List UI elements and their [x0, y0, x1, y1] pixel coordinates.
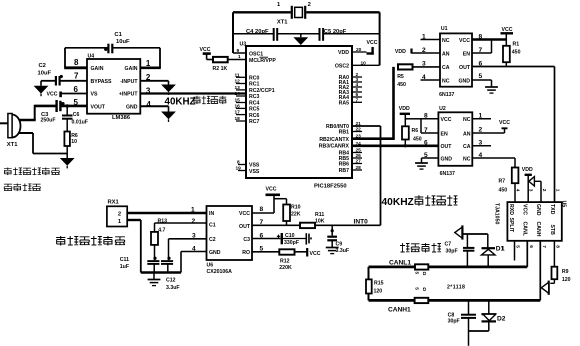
svg-text:7: 7	[541, 245, 547, 248]
svg-text:16: 16	[235, 103, 241, 109]
svg-text:24: 24	[356, 141, 362, 147]
bus line1 CANL	[369, 266, 528, 269]
svg-text:R11: R11	[315, 212, 324, 218]
wire R2 to MCLR	[228, 54, 246, 60]
svg-text:4.7: 4.7	[158, 227, 165, 233]
svg-text:21: 21	[356, 121, 362, 127]
svg-text:VDD: VDD	[338, 50, 349, 56]
svg-text:SPLIT: SPLIT	[508, 218, 514, 234]
wire R13 to C11	[154, 245, 156, 260]
svg-text:C2: C2	[39, 63, 46, 69]
svg-text:8: 8	[555, 245, 561, 248]
svg-text:GAIN: GAIN	[125, 66, 138, 72]
ground between C4 and C5	[293, 34, 308, 48]
VCC supply at CX pin8	[252, 187, 280, 214]
svg-text:5: 5	[479, 73, 483, 80]
svg-text:VCC: VCC	[266, 187, 277, 193]
svg-text:5: 5	[414, 272, 420, 275]
svg-text:TJA1050: TJA1050	[493, 203, 499, 224]
svg-text:EN: EN	[463, 51, 470, 57]
svg-text:RB3/CANRX: RB3/CANRX	[319, 144, 350, 150]
wire U2 GND pin5 to ground	[422, 158, 439, 163]
svg-text:8: 8	[260, 206, 264, 213]
svg-text:26: 26	[356, 153, 362, 159]
svg-text:CANH1: CANH1	[388, 307, 411, 314]
label 40KHZ square wave input	[165, 96, 227, 108]
svg-text:10K: 10K	[315, 219, 325, 225]
ground at pin4	[161, 112, 176, 122]
wire pin7 bypass	[41, 81, 87, 86]
resistor R9 120	[550, 267, 570, 284]
VCC supply above R1	[501, 27, 514, 46]
svg-text:450: 450	[397, 82, 406, 88]
svg-text:RC3: RC3	[249, 94, 259, 100]
svg-text:VOUT: VOUT	[91, 104, 106, 110]
svg-text:1: 1	[479, 113, 483, 120]
bus tap symbol at STB	[541, 281, 548, 295]
VDD supply above R6	[399, 106, 410, 126]
VSS pin stubs 8 and 19	[236, 160, 247, 172]
svg-text:BYPASS: BYPASS	[91, 79, 112, 85]
svg-text:450: 450	[413, 137, 422, 143]
ground below C9	[326, 248, 339, 254]
svg-text:OSC1: OSC1	[249, 51, 263, 57]
svg-text:C2: C2	[209, 237, 216, 243]
ground below rail	[148, 273, 161, 286]
svg-text:22: 22	[356, 127, 362, 133]
svg-text:IN: IN	[209, 211, 214, 217]
svg-text:VCC: VCC	[47, 91, 58, 97]
capacitor C6 0.01uF	[62, 104, 88, 131]
capacitor C12 3.3uF	[161, 257, 180, 291]
svg-text:VSS: VSS	[249, 169, 260, 175]
svg-text:R13: R13	[158, 219, 168, 225]
label ultrasonic sensor (CJK)	[4, 168, 60, 176]
svg-text:R10: R10	[291, 205, 301, 211]
svg-text:1: 1	[501, 246, 505, 253]
wire CX C1 to R13	[155, 223, 207, 232]
svg-text:C4 20pF: C4 20pF	[246, 29, 269, 35]
svg-text:RC1: RC1	[249, 82, 259, 88]
svg-text:8: 8	[74, 58, 79, 67]
svg-text:RX1: RX1	[108, 200, 120, 206]
svg-text:VCC: VCC	[239, 211, 250, 217]
svg-text:C5 20pF: C5 20pF	[324, 29, 347, 35]
svg-text:OUT: OUT	[459, 65, 471, 71]
svg-text:C12: C12	[166, 278, 176, 284]
svg-text:TXD: TXD	[549, 204, 555, 215]
svg-text:OUT: OUT	[441, 144, 453, 150]
svg-text:VCC: VCC	[200, 47, 211, 53]
capacitor C2 10uF	[38, 63, 63, 86]
wire CX OUT	[252, 224, 300, 226]
svg-text:OUT: OUT	[239, 224, 251, 230]
svg-text:30pF: 30pF	[446, 249, 458, 255]
svg-text:GND: GND	[126, 104, 138, 110]
svg-text:RC7: RC7	[249, 119, 259, 125]
svg-text:5: 5	[414, 287, 420, 290]
svg-text:GND: GND	[441, 156, 453, 162]
wire C1 top run	[65, 47, 160, 49]
svg-text:3.3uF: 3.3uF	[336, 248, 350, 254]
resistor R12 220K at pin5	[252, 249, 307, 271]
svg-text:CANL: CANL	[521, 222, 527, 237]
svg-text:6: 6	[424, 140, 428, 147]
wire +INPUT 40KHz input line to PIC RC2	[140, 92, 246, 94]
transducer XT1	[7, 114, 21, 148]
svg-text:11: 11	[235, 72, 240, 78]
resistor R10 22K pull-up	[274, 199, 301, 226]
svg-text:NC: NC	[442, 78, 450, 84]
wire TJA STB pin8 to R9	[553, 241, 555, 267]
bus line2 CANH	[369, 299, 541, 302]
svg-text:RC5: RC5	[249, 107, 259, 113]
wire RB3/CANRX to U2 OUT (thick)	[352, 141, 438, 147]
svg-text:VDD: VDD	[395, 49, 406, 55]
svg-text:25: 25	[356, 148, 362, 154]
wire pin8 feedback loop left	[64, 48, 87, 68]
wire GND pin4 to ground	[140, 106, 168, 111]
wire VOUT corner to transducer	[19, 105, 36, 120]
wire TJA SPLIT pin5 stub	[514, 241, 516, 261]
wire TJA CANH pin7 to bus line2	[539, 241, 541, 301]
label 40KHZ square wave output	[382, 195, 458, 208]
VCC supply for MCLR	[200, 47, 214, 60]
wire TJA CANL pin6 to bus line1	[526, 241, 528, 267]
svg-text:C8: C8	[448, 312, 455, 318]
svg-text:2: 2	[192, 218, 196, 225]
svg-text:EN: EN	[441, 131, 448, 137]
ground below R6	[60, 154, 75, 169]
svg-text:1uF: 1uF	[120, 264, 129, 270]
wire U1 OUT to TJA TXD	[472, 67, 555, 203]
svg-text:VCC: VCC	[367, 40, 378, 46]
label connection bus (CJK)	[400, 243, 441, 253]
svg-text:6N137: 6N137	[440, 171, 455, 177]
crystal XT1	[277, 2, 311, 25]
svg-text:VSS: VSS	[249, 163, 260, 169]
wire joining C8 and D2 bottoms	[469, 331, 489, 346]
wire crystal right vertical to OSC2	[379, 12, 381, 65]
VCC supply at VS pin6	[47, 91, 88, 97]
svg-text:GND: GND	[458, 78, 470, 84]
svg-text:R9: R9	[562, 269, 569, 275]
capacitor C11 1uF	[120, 257, 160, 273]
diode D2	[482, 300, 506, 331]
svg-text:R7: R7	[499, 179, 506, 185]
capacitor C7 30pF	[445, 234, 475, 267]
CAN transceiver U5 TJA1050 box	[493, 201, 566, 241]
wire RB0/INT0 to INT0 net	[352, 121, 381, 225]
svg-text:C6: C6	[73, 112, 80, 118]
svg-text:U1: U1	[441, 26, 448, 32]
wire -INPUT to ground	[140, 81, 168, 85]
svg-text:RB7: RB7	[339, 168, 349, 174]
svg-text:17: 17	[235, 110, 241, 116]
svg-text:RC6: RC6	[249, 113, 259, 119]
svg-text:120: 120	[374, 289, 383, 295]
svg-text:RC2/CCP1: RC2/CCP1	[249, 88, 275, 94]
svg-text:OSC2: OSC2	[335, 64, 349, 70]
U2 right pin stubs 1-4	[472, 113, 491, 160]
svg-text:10uF: 10uF	[116, 39, 130, 45]
svg-text:PIC18F2550: PIC18F2550	[314, 184, 347, 190]
VDD tick at U1 AN pin2	[395, 49, 440, 56]
op-amp U4 LM386 box	[87, 54, 140, 122]
svg-text:23: 23	[356, 134, 362, 140]
svg-text:13: 13	[235, 85, 241, 91]
resistor R6 10	[64, 132, 78, 154]
svg-text:RB2/CANTX: RB2/CANTX	[319, 137, 349, 143]
svg-text:CANL1: CANL1	[389, 260, 411, 267]
svg-text:10: 10	[361, 60, 367, 66]
resistor R2 1K	[213, 57, 228, 72]
svg-text:10uF: 10uF	[38, 71, 52, 77]
svg-text:27: 27	[356, 159, 362, 165]
svg-text:450: 450	[512, 50, 521, 56]
svg-text:CX20106A: CX20106A	[207, 269, 233, 275]
receiver transducer RX1	[107, 200, 127, 227]
label transmit probe (CJK)	[4, 184, 41, 192]
svg-text:GND: GND	[209, 250, 221, 256]
svg-text:CA: CA	[442, 65, 450, 71]
svg-text:RA5: RA5	[339, 101, 349, 107]
svg-text:D2: D2	[497, 316, 506, 323]
svg-text:450: 450	[499, 188, 508, 194]
svg-text:1: 1	[422, 34, 426, 41]
wire VOUT	[35, 105, 87, 108]
svg-text:4: 4	[146, 100, 151, 109]
svg-text:-INPUT: -INPUT	[120, 79, 138, 85]
svg-text:6N137: 6N137	[439, 92, 454, 98]
svg-text:R6: R6	[412, 128, 419, 134]
svg-text:U3: U3	[240, 42, 247, 48]
wire RX1 pin1 down to ground rail	[127, 220, 141, 273]
wire U1 GND pin5 to ground	[472, 80, 492, 87]
wire crystal left vertical to OSC1	[232, 12, 234, 53]
svg-text:30pF: 30pF	[448, 319, 460, 325]
svg-text:4: 4	[422, 74, 426, 81]
wire U2 pin4 to R7	[472, 158, 515, 168]
svg-text:VCC: VCC	[441, 117, 452, 123]
svg-text:C1: C1	[114, 32, 122, 38]
svg-text:15: 15	[235, 98, 241, 104]
bus tap symbol near 40KHz output	[455, 225, 463, 239]
svg-text:18: 18	[235, 116, 241, 122]
svg-text:C9: C9	[336, 242, 343, 248]
svg-text:5: 5	[515, 245, 521, 248]
ground at -INPUT	[161, 85, 176, 95]
svg-text:250uF: 250uF	[41, 117, 56, 123]
svg-text:40KHZ: 40KHZ	[382, 197, 414, 208]
svg-text:0.01uF: 0.01uF	[72, 120, 88, 126]
wire OSC2 pin 10	[352, 60, 380, 66]
ferrite bead L2 in line2	[414, 287, 429, 303]
svg-text:XT1: XT1	[7, 142, 18, 148]
svg-text:C1: C1	[209, 223, 216, 229]
svg-text:20: 20	[356, 47, 362, 53]
capacitor C10 330pF at pin6	[252, 233, 311, 246]
svg-text:330pF: 330pF	[284, 240, 299, 246]
svg-text:7: 7	[356, 97, 359, 103]
wire RX1 pin2 to CX IN	[127, 212, 206, 214]
svg-text:120: 120	[562, 277, 571, 283]
capacitor C5 20pF	[320, 28, 347, 41]
svg-text:Ω: Ω	[421, 287, 427, 291]
wire R11 to INT0 corner	[315, 224, 381, 226]
svg-text:VCC: VCC	[310, 251, 321, 257]
wire transducer bottom	[19, 133, 67, 154]
svg-text:19: 19	[236, 166, 242, 172]
svg-text:GND: GND	[535, 204, 541, 216]
svg-text:R12: R12	[280, 259, 290, 265]
svg-text:MCLR/VPP: MCLR/VPP	[249, 58, 276, 64]
svg-text:6: 6	[356, 92, 359, 98]
svg-text:2: 2	[541, 189, 547, 192]
svg-text:9: 9	[237, 48, 240, 54]
terminator left vertical	[368, 267, 370, 301]
wire U1 EN pin7 tied to VCC	[472, 40, 492, 54]
RB1 RB4-RB7 pin stubs	[352, 127, 362, 172]
svg-text:7: 7	[74, 72, 79, 81]
ground rail	[141, 271, 181, 274]
svg-text:R1: R1	[513, 42, 520, 48]
svg-text:R5: R5	[397, 74, 404, 80]
svg-text:C7: C7	[445, 242, 452, 248]
svg-text:+INPUT: +INPUT	[119, 92, 138, 98]
svg-text:6: 6	[528, 245, 534, 248]
svg-text:R2 1K: R2 1K	[213, 66, 228, 72]
MCU U3 PIC18F2550 box	[240, 42, 353, 190]
capacitor C8 30pF	[448, 300, 476, 331]
svg-text:CA: CA	[463, 144, 471, 150]
svg-text:1: 1	[555, 189, 561, 192]
svg-text:40KHZ: 40KHZ	[165, 97, 196, 108]
resistor R5 450	[397, 64, 440, 88]
svg-text:STB: STB	[549, 225, 555, 236]
svg-text:3: 3	[528, 189, 534, 192]
TJA top pin numbers 4,3,2,1 (rotated)	[514, 189, 560, 192]
VCC tick at U2 AN pin2	[472, 120, 510, 133]
svg-text:C3: C3	[243, 237, 250, 243]
ground at U1 pin5	[485, 87, 498, 93]
svg-text:NC: NC	[463, 117, 471, 123]
svg-text:RB1: RB1	[339, 130, 349, 136]
optocoupler U2 6N137 box	[438, 106, 472, 177]
optocoupler U1 6N137 box	[439, 26, 472, 98]
wire tap node to D1	[463, 233, 487, 235]
CX pin numbers left 1-4	[191, 207, 196, 253]
svg-text:RXD: RXD	[508, 204, 514, 215]
svg-text:AN: AN	[463, 131, 471, 137]
svg-text:1: 1	[191, 207, 195, 214]
svg-text:RB6: RB6	[339, 162, 349, 168]
svg-text:4: 4	[514, 189, 520, 192]
svg-text:NC: NC	[442, 38, 450, 44]
svg-text:INT0: INT0	[354, 219, 369, 226]
svg-text:12: 12	[235, 79, 241, 85]
wire OSC1	[233, 48, 246, 54]
wire pin1 to feedback	[140, 48, 161, 68]
VCC tick at R12	[307, 248, 321, 257]
capacitor C1 10uF	[104, 32, 130, 53]
resistor R11 10K	[300, 212, 325, 228]
svg-text:VDD: VDD	[522, 167, 533, 173]
svg-text:U2: U2	[439, 106, 446, 112]
U2 left pin numbers 8,7,6,5	[424, 113, 428, 159]
VDD pin 20 with VCC supply	[352, 40, 378, 55]
svg-text:3: 3	[479, 140, 483, 147]
RA0-RA5 pin stubs with numbers 2-7	[352, 72, 362, 103]
svg-text:R15: R15	[374, 281, 384, 287]
ferrite bead L1 in line1	[414, 264, 429, 275]
ground at U2 pin5	[415, 163, 428, 169]
resistor R7 450	[499, 168, 519, 203]
wire CX GND pin4 down to rail	[181, 252, 207, 273]
wire crystal top run	[233, 11, 380, 13]
svg-text:220K: 220K	[279, 265, 292, 271]
U1 right pin numbers 8,7,6,5	[479, 34, 483, 81]
svg-text:U5: U5	[561, 201, 567, 208]
svg-text:U6: U6	[207, 263, 214, 269]
svg-text:C11: C11	[120, 257, 129, 263]
resistor R13 4.7	[151, 219, 167, 245]
wire stub at image left edge	[0, 122, 8, 124]
VDD supply with diode at TJA	[522, 167, 533, 202]
svg-text:C10: C10	[285, 233, 295, 239]
diode at VDD pin	[529, 177, 541, 203]
capacitor C3 250uF	[41, 100, 65, 123]
svg-text:VCC: VCC	[521, 204, 527, 215]
svg-text:Ω: Ω	[421, 272, 427, 276]
svg-text:28: 28	[356, 165, 362, 171]
svg-text:VCC: VCC	[499, 120, 510, 126]
svg-text:NC: NC	[463, 156, 471, 162]
svg-text:CANH: CANH	[535, 222, 541, 237]
IC U6 CX20106A box	[207, 206, 253, 275]
svg-text:2: 2	[308, 2, 311, 8]
wire C4/C5 run	[233, 33, 380, 35]
diode D1	[482, 234, 505, 267]
svg-text:RC0: RC0	[249, 76, 259, 82]
svg-text:VCC: VCC	[459, 38, 470, 44]
svg-text:2*1118: 2*1118	[447, 285, 465, 291]
resistor R1 450	[503, 42, 521, 67]
svg-text:22K: 22K	[291, 212, 301, 218]
svg-text:1: 1	[238, 54, 241, 60]
svg-text:GAIN: GAIN	[91, 66, 104, 72]
svg-text:10: 10	[71, 139, 77, 145]
svg-text:XT1: XT1	[277, 20, 288, 26]
U1 left pin stubs 1-4	[421, 34, 441, 82]
resistor R15 120	[366, 279, 384, 294]
svg-text:U4: U4	[88, 54, 95, 60]
svg-text:8: 8	[237, 160, 240, 166]
capacitor C9 3.3uF	[327, 225, 349, 254]
svg-text:RO: RO	[242, 250, 250, 256]
ground at C2	[34, 86, 49, 96]
svg-text:LM386: LM386	[112, 115, 131, 121]
svg-text:2: 2	[118, 212, 121, 218]
capacitor C4 20pF	[246, 28, 277, 41]
wire U1 VCC pin8	[472, 38, 506, 40]
wire CX C2 to C12	[169, 239, 207, 260]
CX pin numbers right 8,7,6,5	[260, 206, 264, 253]
resistor R6 450 pull-up	[402, 126, 422, 147]
wire VDD to U2 pin8 and pin7	[405, 119, 438, 133]
TJA bottom pin numbers 5,6,7,8 (rotated)	[515, 245, 561, 248]
RC0-RC7 pin stubs with numbers 11-18	[235, 72, 247, 122]
